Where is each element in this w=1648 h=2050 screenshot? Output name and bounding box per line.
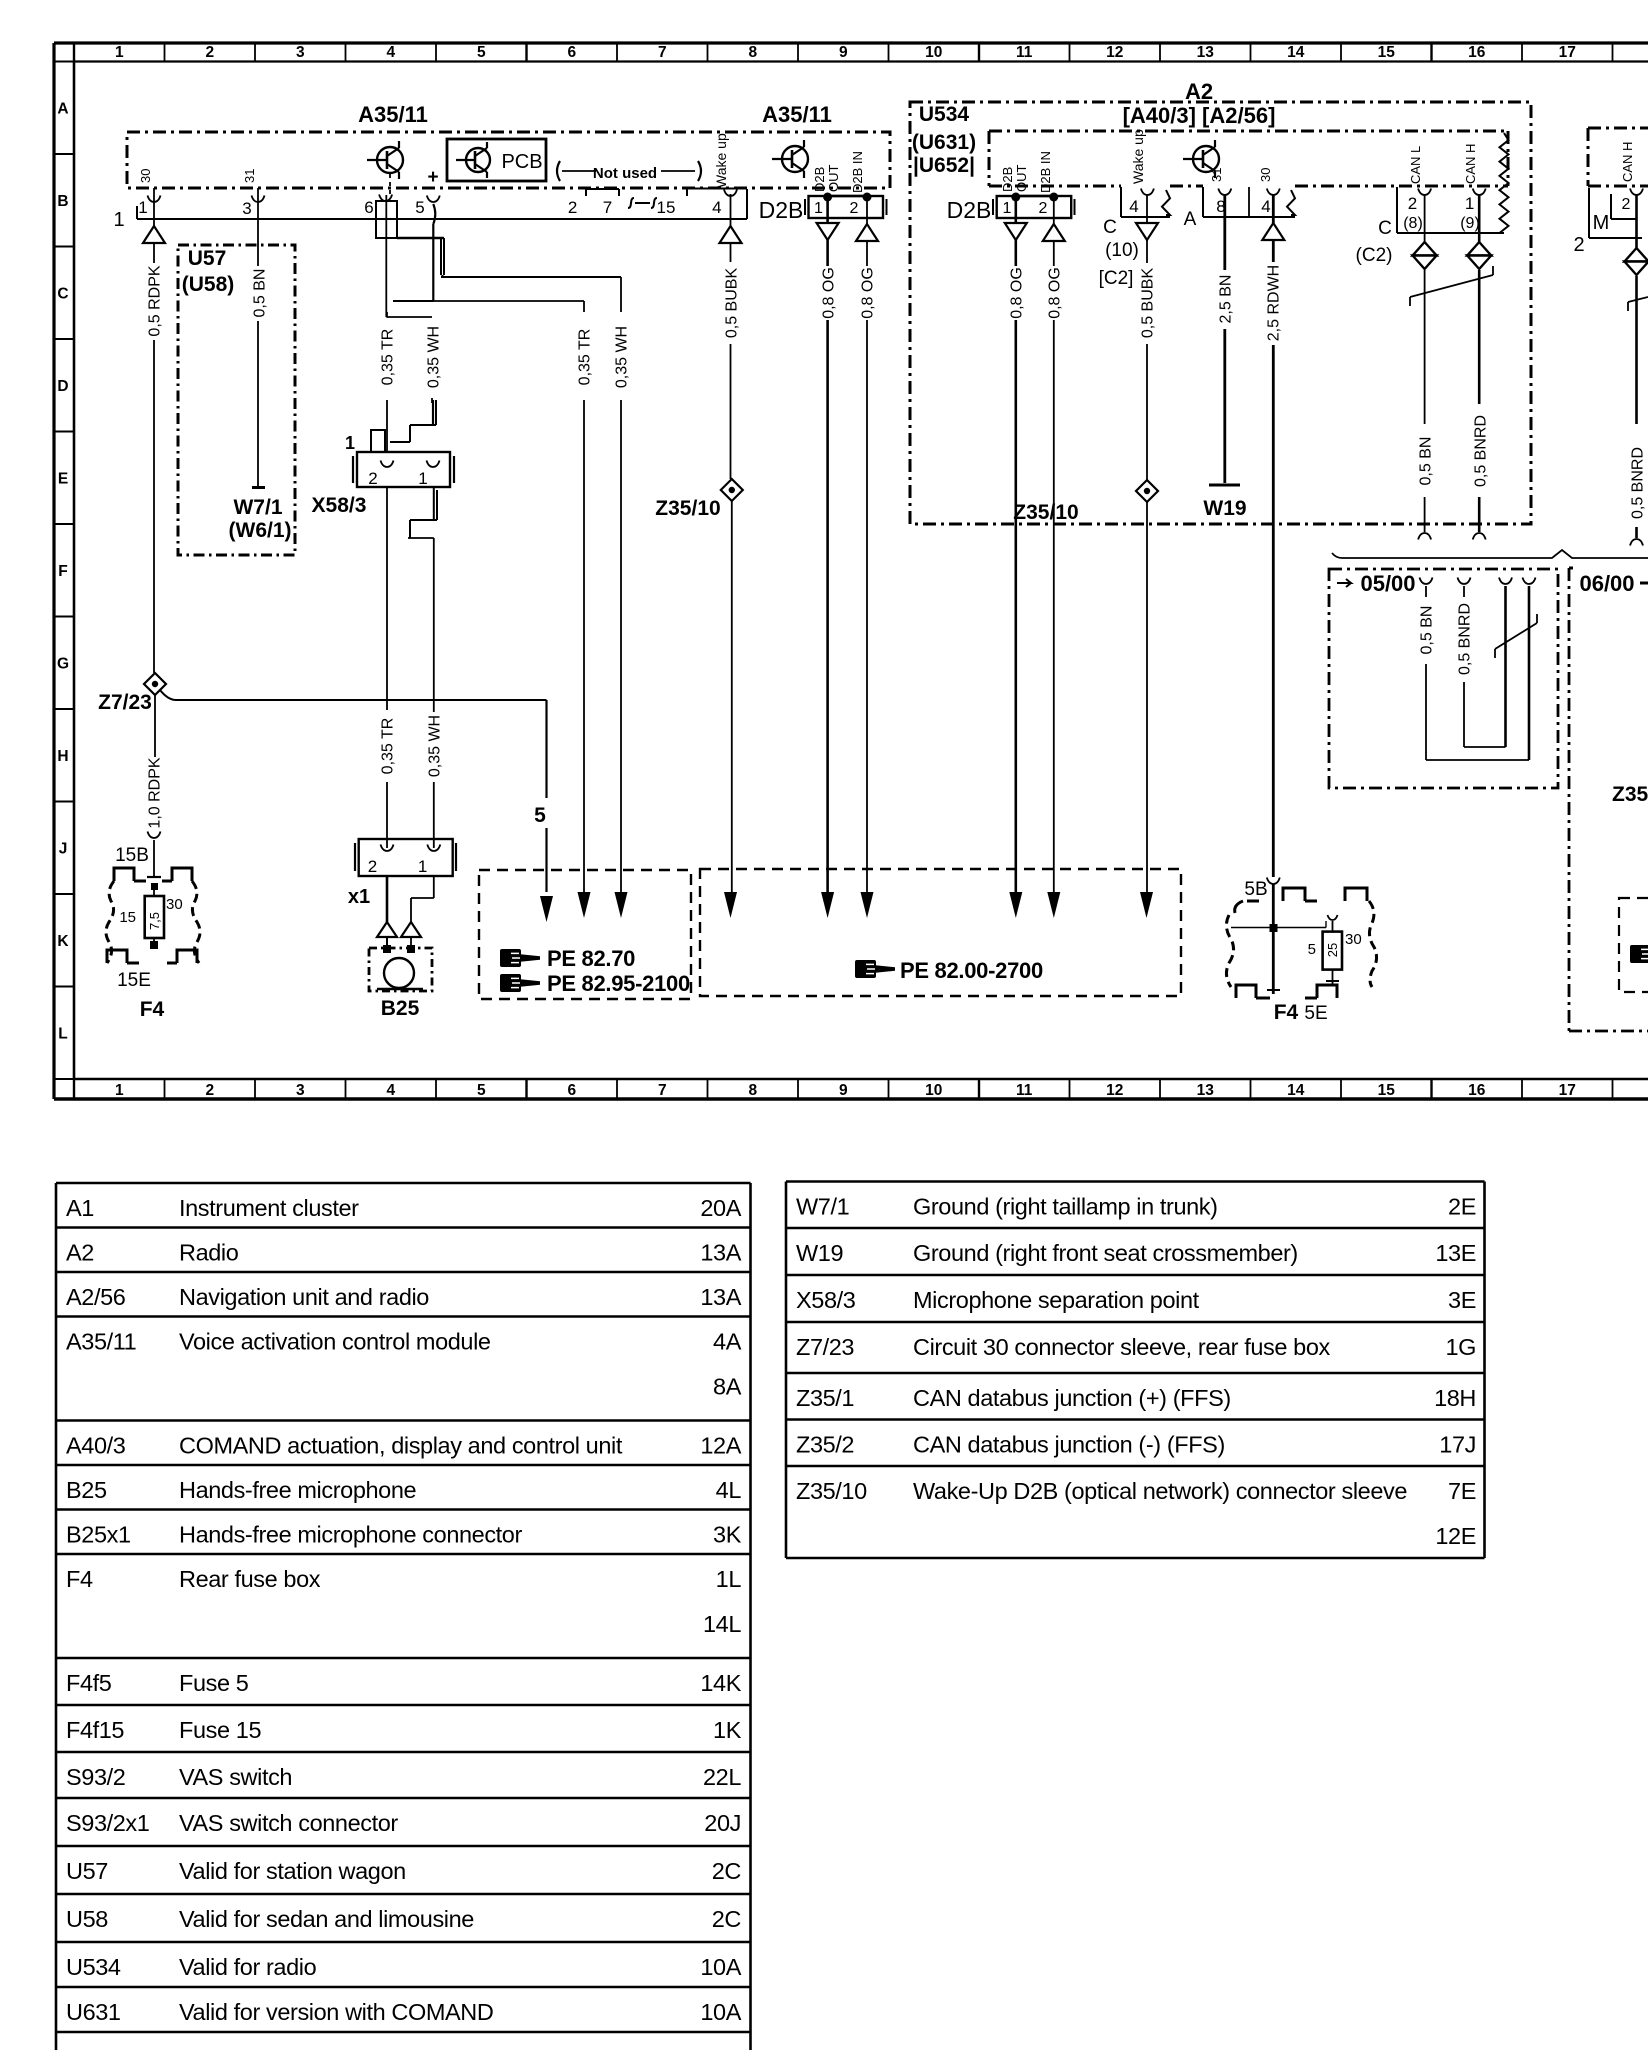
ground W7/1 — [252, 486, 265, 489]
svg-text:31: 31 — [242, 169, 257, 183]
svg-text:2: 2 — [205, 44, 214, 61]
shield jog to WH branch — [397, 237, 444, 239]
microphone amplifier symbol in PCB — [466, 148, 490, 172]
svg-text:W19: W19 — [1203, 497, 1246, 520]
svg-text:0,8 OG: 0,8 OG — [1046, 267, 1063, 319]
svg-text:Z35/: Z35/ — [1612, 783, 1648, 806]
svg-text:4: 4 — [1261, 197, 1270, 216]
svg-text:16: 16 — [1468, 1082, 1486, 1099]
svg-text:Hands-free microphone connecto: Hands-free microphone connector — [179, 1522, 522, 1548]
svg-text:Valid for version with COMAND: Valid for version with COMAND — [179, 1999, 493, 2025]
svg-text:(9): (9) — [1460, 215, 1480, 232]
svg-text:12A: 12A — [700, 1433, 741, 1459]
svg-text:OUT: OUT — [1014, 165, 1029, 193]
microphone amplifier symbol in A35/11 right — [782, 146, 808, 172]
svg-text:9: 9 — [839, 44, 848, 61]
control module A35/11 box — [127, 132, 890, 188]
svg-text:(10): (10) — [1105, 240, 1139, 261]
svg-text:1: 1 — [418, 857, 427, 876]
wire 0,5 BN CAN L — [1424, 194, 1426, 242]
svg-text:VAS switch: VAS switch — [179, 1764, 292, 1790]
svg-text:2: 2 — [850, 200, 859, 217]
svg-text:B: B — [57, 193, 68, 210]
svg-text:0,5 BN: 0,5 BN — [251, 269, 268, 318]
svg-text:A35/11: A35/11 — [66, 1329, 136, 1355]
svg-text:U57: U57 — [66, 1858, 108, 1884]
svg-text:1: 1 — [1465, 194, 1474, 213]
svg-text:S93/2: S93/2 — [66, 1764, 125, 1790]
svg-text:D2B: D2B — [759, 197, 804, 223]
svg-text:13A: 13A — [700, 1284, 741, 1310]
svg-text:0,5 BN: 0,5 BN — [1418, 606, 1435, 655]
column number band top — [73, 43, 75, 62]
svg-text:16: 16 — [1468, 44, 1486, 61]
shield staircase above X58/3 — [432, 400, 434, 425]
svg-text:0,35 WH: 0,35 WH — [426, 715, 443, 777]
wire 0,8 OG radio out — [1014, 201, 1017, 222]
connector rail of A35/11 — [137, 218, 747, 220]
interval symbol — [628, 198, 657, 208]
svg-text:VAS switch connector: VAS switch connector — [179, 1810, 398, 1836]
svg-text:18H: 18H — [1434, 1385, 1476, 1411]
twist crossover — [393, 300, 433, 302]
arrow BUBK right into PE box — [1140, 892, 1153, 918]
optical connector D2B of A35/11 — [809, 196, 884, 218]
svg-text:x1: x1 — [348, 886, 370, 908]
svg-text:2: 2 — [205, 1082, 214, 1099]
svg-text:10: 10 — [925, 44, 942, 61]
arrow into PE 82.70 box — [540, 896, 553, 922]
ground W19 — [1209, 484, 1240, 487]
row letter band — [54, 61, 74, 63]
svg-text:C: C — [57, 286, 68, 303]
svg-text:H: H — [57, 748, 68, 765]
svg-text:4: 4 — [386, 1082, 395, 1099]
not used bracket — [557, 161, 560, 181]
svg-text:6: 6 — [364, 198, 373, 217]
svg-text:F: F — [58, 563, 67, 580]
svg-text:3: 3 — [296, 44, 305, 61]
wires in 05/00 box — [1420, 578, 1433, 585]
svg-text:20J: 20J — [704, 1810, 741, 1836]
wires below X58/3 with shield staircase — [386, 487, 388, 710]
svg-text:0,8 OG: 0,8 OG — [859, 267, 876, 319]
svg-text:1: 1 — [113, 209, 124, 231]
svg-text:Voice activation control modul: Voice activation control module — [179, 1329, 491, 1355]
svg-text:F4f5: F4f5 — [66, 1670, 112, 1696]
svg-text:14K: 14K — [700, 1670, 741, 1696]
svg-text:B25: B25 — [381, 997, 420, 1020]
pin bracket of M box — [1630, 189, 1643, 196]
svg-text:U534: U534 — [919, 103, 970, 126]
legend table right — [786, 1180, 1485, 1183]
svg-text:M: M — [1593, 212, 1610, 234]
wire 0,8 OG in — [866, 201, 868, 224]
svg-text:CAN H: CAN H — [1463, 144, 1478, 184]
svg-text:G: G — [57, 656, 69, 673]
option box U57/U58 — [178, 245, 295, 555]
svg-text:(C2): (C2) — [1356, 245, 1393, 266]
svg-text:4A: 4A — [713, 1329, 742, 1355]
wire 0,35 WH upper branch — [441, 276, 621, 278]
fuse F4f5 wire junction — [1270, 924, 1278, 932]
svg-text:2: 2 — [1573, 234, 1584, 256]
pin bracket A of A2 — [1202, 187, 1204, 217]
svg-text:13E: 13E — [1435, 1240, 1476, 1266]
connector sleeve Z35/10 right — [1136, 480, 1158, 502]
svg-text:|U652|: |U652| — [913, 154, 975, 177]
svg-text:0,5 BUBK: 0,5 BUBK — [1139, 268, 1156, 339]
svg-text:J: J — [59, 841, 68, 858]
svg-text:W7/1: W7/1 — [233, 496, 282, 519]
connector sleeve Z35/10 left — [721, 479, 743, 501]
svg-text:15: 15 — [119, 909, 136, 926]
arrow radio OG in into PE box — [1047, 892, 1060, 918]
hands-free microphone connector B25x1 — [359, 839, 453, 876]
wire 0,8 OG out — [826, 201, 829, 222]
svg-text:Z7/23: Z7/23 — [796, 1334, 854, 1360]
svg-text:25: 25 — [1325, 943, 1340, 957]
option box U534/U631/U652 around radio A2 — [910, 102, 1531, 524]
reference box PE clipped — [1619, 898, 1648, 992]
svg-text:06/00: 06/00 — [1579, 571, 1634, 596]
svg-text:Z35/10: Z35/10 — [655, 497, 720, 520]
svg-text:3K: 3K — [713, 1522, 742, 1548]
wire 2,5 BN to ground W19 — [1223, 194, 1226, 270]
svg-text:0,8 OG: 0,8 OG — [1008, 267, 1025, 319]
svg-text:10A: 10A — [700, 1954, 741, 1980]
svg-text:2C: 2C — [712, 1858, 742, 1884]
svg-text:8: 8 — [748, 44, 757, 61]
svg-text:2,5 BN: 2,5 BN — [1217, 275, 1234, 324]
reference box PE 82.70 / PE 82.95-2100 — [479, 870, 691, 999]
svg-text:Valid for radio: Valid for radio — [179, 1954, 317, 1980]
wire 0,5 BNRD from M — [1635, 194, 1638, 248]
microphone separation point X58/3 — [357, 452, 450, 487]
svg-text:0,5 BNRD: 0,5 BNRD — [1456, 603, 1473, 675]
arrow WH into PE 82.70 box — [615, 892, 628, 918]
hands-free microphone B25 — [369, 948, 432, 991]
svg-text:0,35 WH: 0,35 WH — [613, 326, 630, 388]
svg-text:Rear fuse box: Rear fuse box — [179, 1566, 321, 1592]
svg-text:Z35/10: Z35/10 — [1013, 501, 1078, 524]
svg-text:PE 82.95-2100: PE 82.95-2100 — [547, 971, 690, 996]
svg-text:Radio: Radio — [179, 1240, 239, 1266]
svg-text:7: 7 — [658, 1082, 667, 1099]
svg-text:A2: A2 — [66, 1240, 94, 1266]
svg-text:E: E — [58, 471, 68, 488]
wire from pin 5 — [433, 204, 435, 224]
twisted pair symbol — [1410, 275, 1493, 297]
svg-text:7: 7 — [658, 44, 667, 61]
svg-text:4L: 4L — [716, 1477, 742, 1503]
svg-text:6: 6 — [567, 44, 576, 61]
pin bracket CAN of A2 — [1396, 187, 1398, 233]
wire 2,5 RDWH to fuse F4f5 — [1272, 194, 1275, 223]
svg-text:F4: F4 — [66, 1566, 93, 1592]
svg-text:Wake up: Wake up — [1130, 129, 1146, 184]
svg-text:14: 14 — [1287, 44, 1305, 61]
border frame — [54, 41, 1648, 44]
svg-text:22L: 22L — [703, 1764, 741, 1790]
wire through fuse box to bottom — [1272, 884, 1275, 994]
svg-text:11: 11 — [1016, 1082, 1033, 1099]
legend table left — [56, 1182, 751, 1185]
svg-text:U58: U58 — [66, 1906, 108, 1932]
twist in 05/00 — [1495, 623, 1537, 649]
svg-text:9: 9 — [839, 1082, 848, 1099]
optical connector D2B of radio — [997, 196, 1071, 218]
svg-text:2: 2 — [368, 857, 377, 876]
pin bracket C wake-up of A2 — [1120, 187, 1122, 217]
svg-text:D2B: D2B — [812, 167, 827, 192]
svg-text:CAN L: CAN L — [1408, 146, 1423, 184]
svg-text:F4: F4 — [140, 998, 165, 1021]
svg-text:2,5 RDWH: 2,5 RDWH — [1265, 265, 1282, 341]
svg-text:14: 14 — [1287, 1082, 1305, 1099]
svg-text:1: 1 — [115, 44, 124, 61]
svg-text:(U631): (U631) — [912, 131, 976, 154]
svg-text:31: 31 — [1209, 168, 1224, 182]
continuation brace line — [1332, 550, 1648, 558]
svg-text:Valid for station wagon: Valid for station wagon — [179, 1858, 406, 1884]
svg-text:1: 1 — [814, 200, 823, 217]
microphone amplifier symbol Q1 in A35/11 — [377, 147, 403, 173]
svg-text:14L: 14L — [703, 1611, 741, 1637]
wire 0,5 BUBK from pin 4 of A35/11 — [730, 219, 732, 226]
twist tick at M wire — [1627, 302, 1629, 311]
wire 0,5 BNRD CAN H — [1478, 194, 1481, 242]
svg-text:D: D — [57, 378, 68, 395]
svg-text:4: 4 — [1129, 197, 1138, 216]
svg-text:13A: 13A — [700, 1240, 741, 1266]
rear fuse box F4 right with fuse F4f5 — [1247, 888, 1367, 901]
svg-text:0,5 BNRD: 0,5 BNRD — [1472, 415, 1489, 487]
fuse element F4f15 7,5A — [145, 896, 164, 938]
svg-text:B25: B25 — [66, 1477, 107, 1503]
svg-text:11: 11 — [1016, 44, 1033, 61]
svg-text:D2B: D2B — [1000, 167, 1015, 192]
svg-text:2: 2 — [1622, 196, 1631, 213]
svg-text:1: 1 — [138, 198, 147, 217]
svg-text:0,35 WH: 0,35 WH — [425, 326, 442, 388]
svg-text:Instrument cluster: Instrument cluster — [179, 1195, 359, 1221]
svg-text:0,8 OG: 0,8 OG — [820, 267, 837, 319]
svg-text:U57: U57 — [188, 247, 227, 270]
svg-text:3: 3 — [296, 1082, 305, 1099]
wire 0,35 TR to X58/3 — [386, 312, 388, 317]
svg-text:C: C — [1103, 217, 1117, 238]
arrow BUBK into PE 82.00-2700 box — [724, 892, 737, 918]
svg-text:2C: 2C — [712, 1906, 742, 1932]
svg-text:A: A — [57, 101, 68, 118]
svg-text:Wake-Up D2B (optical network): Wake-Up D2B (optical network) connector … — [913, 1478, 1407, 1504]
wires from x1 to B25 — [386, 876, 389, 922]
wire 1,0 RDPK below Z7/23 — [154, 695, 156, 757]
svg-text:13: 13 — [1197, 1082, 1215, 1099]
wire 0,5 BUBK from A2 wake-up — [1146, 194, 1148, 222]
svg-text:0,5 BNRD: 0,5 BNRD — [1629, 447, 1646, 519]
wire 0,5 RDPK from pin 1 — [153, 219, 155, 226]
arrow radio OG out into PE box — [1009, 892, 1022, 918]
wire 0,8 OG radio in — [1053, 201, 1055, 224]
svg-text:30: 30 — [138, 169, 153, 183]
svg-text:A: A — [1184, 209, 1197, 230]
svg-text:13: 13 — [1197, 44, 1215, 61]
svg-text:K: K — [57, 933, 69, 950]
svg-text:5B: 5B — [1244, 879, 1267, 900]
svg-text:5: 5 — [477, 44, 486, 61]
svg-text:1: 1 — [345, 433, 355, 453]
svg-text:15: 15 — [657, 198, 676, 217]
svg-text:(U58): (U58) — [182, 273, 235, 296]
svg-text:B25x1: B25x1 — [66, 1522, 131, 1548]
connector sleeve Z7/23 — [144, 673, 166, 695]
PCB box in A35/11 — [447, 139, 546, 181]
svg-text:7,5: 7,5 — [147, 912, 162, 930]
svg-text:(8): (8) — [1403, 215, 1423, 232]
svg-text:12E: 12E — [1435, 1523, 1476, 1549]
svg-text:C: C — [1378, 218, 1392, 239]
svg-text:5: 5 — [415, 198, 424, 217]
reference box PE 82.00-2700 — [700, 869, 1181, 996]
svg-text:Microphone separation point: Microphone separation point — [913, 1287, 1200, 1313]
svg-text:2: 2 — [1039, 200, 1048, 217]
svg-text:30: 30 — [1345, 931, 1362, 948]
svg-text:PE 82.70: PE 82.70 — [547, 946, 635, 971]
svg-text:0,5 RDPK: 0,5 RDPK — [146, 265, 163, 336]
svg-text:2: 2 — [568, 198, 577, 217]
svg-text:Valid for sedan and limousine: Valid for sedan and limousine — [179, 1906, 474, 1932]
svg-text:30: 30 — [166, 896, 183, 913]
svg-text:0,5 BN: 0,5 BN — [1417, 437, 1434, 486]
svg-text:A2: A2 — [1185, 79, 1213, 104]
svg-text:U631: U631 — [66, 1999, 121, 2025]
svg-text:X58/3: X58/3 — [796, 1287, 856, 1313]
section box 06/00 — [1569, 567, 1573, 570]
svg-text:7: 7 — [603, 198, 612, 217]
svg-text:8: 8 — [748, 1082, 757, 1099]
rear fuse box F4 with fuse F4f15 — [114, 868, 134, 881]
svg-text:1: 1 — [418, 469, 427, 488]
svg-text:15B: 15B — [115, 845, 149, 866]
microphone amplifier symbol in A2 — [1193, 146, 1219, 172]
svg-text:15: 15 — [1378, 44, 1396, 61]
svg-text:A1: A1 — [66, 1195, 94, 1221]
svg-text:Wake up: Wake up — [713, 133, 729, 188]
svg-text:Ground (right taillamp in trun: Ground (right taillamp in trunk) — [913, 1194, 1218, 1220]
svg-text:2: 2 — [1408, 194, 1417, 213]
svg-text:Not used: Not used — [593, 165, 657, 182]
svg-text:X58/3: X58/3 — [312, 494, 367, 517]
radio A2 inner box — [989, 130, 1508, 133]
svg-text:8A: 8A — [713, 1374, 742, 1400]
arrow OG out into PE box — [821, 892, 834, 918]
svg-text:(W6/1): (W6/1) — [229, 519, 292, 542]
svg-text:S93/2x1: S93/2x1 — [66, 1810, 149, 1836]
svg-text:PE 82.00-2700: PE 82.00-2700 — [900, 958, 1043, 983]
svg-text:Z35/1: Z35/1 — [796, 1385, 854, 1411]
svg-text:15E: 15E — [117, 970, 151, 991]
svg-text:[A40/3] [A2/56]: [A40/3] [A2/56] — [1123, 103, 1276, 128]
wire 0,35 TR lower branch — [393, 300, 584, 302]
svg-text:Ground (right front seat cross: Ground (right front seat crossmember) — [913, 1240, 1298, 1266]
svg-text:1L: 1L — [716, 1566, 742, 1592]
svg-text:Z7/23: Z7/23 — [98, 691, 152, 714]
section box 05/00 — [1329, 569, 1558, 788]
svg-text:Fuse 5: Fuse 5 — [179, 1670, 249, 1696]
svg-text:COMAND actuation, display and: COMAND actuation, display and control un… — [179, 1433, 623, 1459]
svg-text:U534: U534 — [66, 1954, 121, 1980]
svg-text:2E: 2E — [1448, 1194, 1476, 1220]
svg-text:10: 10 — [925, 1082, 942, 1099]
svg-text:A2/56: A2/56 — [66, 1284, 126, 1310]
svg-text:0,35 TR: 0,35 TR — [379, 329, 396, 386]
svg-text:20A: 20A — [700, 1195, 741, 1221]
svg-text:1,0 RDPK: 1,0 RDPK — [146, 757, 163, 828]
shield housing at pin 6 — [376, 201, 397, 238]
svg-text:30: 30 — [1258, 168, 1273, 182]
module box M partial right edge — [1588, 127, 1648, 130]
svg-text:17: 17 — [1559, 44, 1576, 61]
svg-text:F4: F4 — [1274, 1001, 1299, 1024]
svg-text:L: L — [58, 1026, 67, 1043]
svg-text:2: 2 — [368, 469, 377, 488]
svg-text:+: + — [427, 167, 438, 188]
svg-text:OUT: OUT — [826, 165, 841, 193]
svg-text:F4f15: F4f15 — [66, 1717, 124, 1743]
svg-text:D2B IN: D2B IN — [850, 151, 865, 193]
svg-text:Fuse 15: Fuse 15 — [179, 1717, 261, 1743]
svg-text:05/00: 05/00 — [1360, 571, 1415, 596]
svg-text:5: 5 — [1308, 941, 1316, 958]
svg-text:CAN databus junction (-) (FFS): CAN databus junction (-) (FFS) — [913, 1432, 1225, 1458]
svg-text:5: 5 — [534, 804, 546, 827]
svg-text:A40/3: A40/3 — [66, 1433, 126, 1459]
svg-text:CAN databus junction (+) (FFS): CAN databus junction (+) (FFS) — [913, 1385, 1231, 1411]
svg-text:15: 15 — [1378, 1082, 1396, 1099]
svg-text:1G: 1G — [1445, 1334, 1476, 1360]
svg-text:3: 3 — [242, 199, 251, 218]
svg-text:[C2]: [C2] — [1099, 268, 1134, 289]
svg-text:W19: W19 — [796, 1240, 843, 1266]
svg-text:5: 5 — [477, 1082, 486, 1099]
svg-text:1: 1 — [115, 1082, 124, 1099]
svg-text:D2B: D2B — [947, 197, 992, 223]
svg-text:6: 6 — [567, 1082, 576, 1099]
CAN terminating resistor — [1500, 133, 1509, 233]
wire branch 5 from Z7/23 — [160, 690, 176, 700]
svg-text:Hands-free microphone: Hands-free microphone — [179, 1477, 416, 1503]
arrow TR into PE 82.70 box — [578, 892, 591, 918]
svg-text:17: 17 — [1559, 1082, 1576, 1099]
svg-text:12: 12 — [1106, 44, 1123, 61]
svg-text:1: 1 — [1003, 200, 1012, 217]
svg-text:4: 4 — [386, 44, 395, 61]
svg-text:5E: 5E — [1304, 1003, 1327, 1024]
svg-text:W7/1: W7/1 — [796, 1194, 849, 1220]
svg-text:10A: 10A — [700, 1999, 741, 2025]
svg-text:CAN H: CAN H — [1620, 142, 1635, 182]
svg-text:PCB: PCB — [501, 151, 542, 173]
fuse element F4f5 25A — [1323, 932, 1342, 970]
svg-text:0,5 BUBK: 0,5 BUBK — [723, 268, 740, 339]
wire 0,5 BN from pin 3 — [257, 219, 259, 266]
svg-text:Navigation unit and radio: Navigation unit and radio — [179, 1284, 429, 1310]
svg-text:A35/11: A35/11 — [762, 102, 832, 127]
column number band bottom — [73, 1079, 75, 1099]
svg-text:Circuit 30 connector sleeve, r: Circuit 30 connector sleeve, rear fuse b… — [913, 1334, 1331, 1360]
